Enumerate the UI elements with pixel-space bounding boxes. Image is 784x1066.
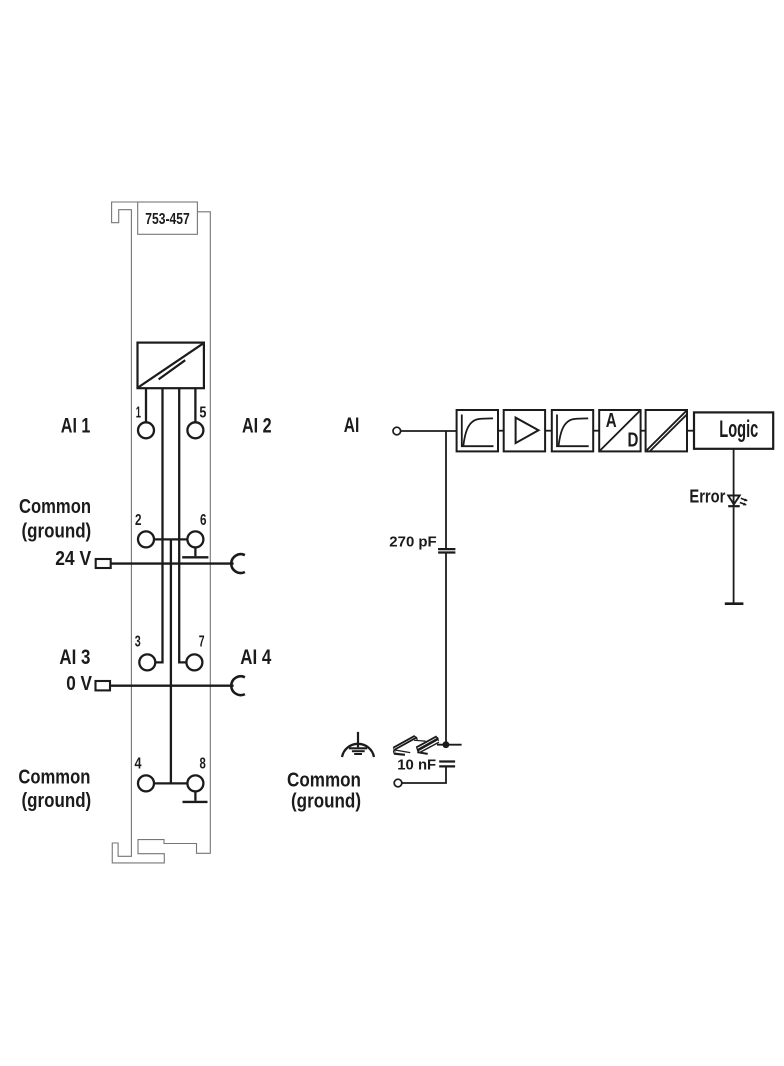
svg-text:(ground): (ground) xyxy=(291,791,361,813)
AI input terminal circle xyxy=(393,427,401,435)
A/D converter block U1 xyxy=(138,343,204,389)
svg-text:24 V: 24 V xyxy=(55,548,92,570)
terminal 3 xyxy=(135,634,156,671)
ground bar below logic xyxy=(725,602,744,605)
LED Error diode xyxy=(728,496,748,507)
svg-text:AI: AI xyxy=(344,413,360,437)
svg-text:AI 2: AI 2 xyxy=(242,413,272,437)
isolation block 5 xyxy=(646,410,687,451)
wire logic down to LED xyxy=(733,449,735,507)
svg-text:AI 1: AI 1 xyxy=(61,413,91,437)
terminal 7 xyxy=(186,634,204,671)
svg-text:5: 5 xyxy=(199,405,206,422)
common ground terminal circle xyxy=(394,779,402,787)
svg-text:2: 2 xyxy=(135,512,142,529)
svg-text:7: 7 xyxy=(199,634,205,651)
wire DIN rail to junction dot xyxy=(437,744,462,746)
label Common (ground) right xyxy=(287,770,361,813)
terminal 2 xyxy=(135,512,154,547)
svg-text:Common: Common xyxy=(19,496,91,518)
label box 753-457 xyxy=(138,202,198,234)
24 V power jumper rail xyxy=(96,554,245,573)
wire converter to terminal 5 xyxy=(194,388,196,423)
capacitor 270 pF xyxy=(438,549,455,552)
wire converter to terminal 3 xyxy=(155,388,162,662)
wire 10 nF to common terminal xyxy=(402,766,446,783)
capacitor 10 nF xyxy=(439,762,455,767)
wire LED to ground bar xyxy=(733,507,735,603)
shield earth symbol xyxy=(342,732,374,757)
svg-text:D: D xyxy=(628,429,639,451)
wire converter to terminal 1 xyxy=(145,388,147,423)
logic block xyxy=(694,412,773,448)
svg-text:1: 1 xyxy=(136,405,141,422)
svg-text:(ground): (ground) xyxy=(22,521,92,543)
svg-text:Common: Common xyxy=(18,766,90,788)
svg-text:4: 4 xyxy=(135,756,142,773)
junction node on AI wire xyxy=(445,431,447,548)
wire AI terminal to filter block xyxy=(401,430,457,432)
amplifier block 2 xyxy=(504,410,545,451)
terminal 1 xyxy=(136,405,154,439)
DIN rail icon xyxy=(393,736,440,755)
label Common (ground) upper xyxy=(19,496,91,543)
svg-text:(ground): (ground) xyxy=(22,790,92,812)
terminal 5 xyxy=(187,405,206,439)
svg-text:10 nF: 10 nF xyxy=(397,758,436,774)
svg-text:AI 4: AI 4 xyxy=(240,645,271,669)
wire block5 to logic xyxy=(687,430,694,432)
svg-text:6: 6 xyxy=(200,512,207,529)
wire terminal 2 to terminal 6 xyxy=(154,538,187,540)
svg-text:8: 8 xyxy=(200,756,207,773)
svg-text:753-457: 753-457 xyxy=(145,211,190,228)
svg-text:AI 3: AI 3 xyxy=(59,645,90,669)
svg-text:0 V: 0 V xyxy=(66,673,92,695)
A/D block 4 xyxy=(599,410,640,451)
svg-text:270 pF: 270 pF xyxy=(389,535,437,551)
wire block4 to block5 xyxy=(641,430,646,432)
module outline 753-457 xyxy=(112,202,211,863)
junction dot xyxy=(443,741,450,748)
wire converter to terminal 7 xyxy=(179,388,186,662)
terminal 8 xyxy=(187,756,206,792)
svg-text:3: 3 xyxy=(135,634,141,651)
label Common (ground) lower xyxy=(18,766,91,812)
0 V power jumper rail xyxy=(96,676,245,695)
svg-text:Error: Error xyxy=(689,485,725,506)
power jumper contact plate terminal 6 xyxy=(182,556,208,558)
power jumper contact plate terminal 8 xyxy=(183,801,208,803)
filter block 3 xyxy=(552,410,593,451)
power jumper contact stem terminal 8 xyxy=(194,791,196,800)
wire block2 to block3 xyxy=(545,430,552,432)
wire block1 to block2 xyxy=(498,430,504,432)
power jumper contact stem terminal 6 xyxy=(194,547,196,556)
wire block3 to block4 xyxy=(593,430,599,432)
wire 270 pF down to junction dot xyxy=(445,553,447,745)
filter block 1 xyxy=(457,410,498,451)
wire common bus down to 4/8 row xyxy=(170,539,172,783)
terminal 6 xyxy=(187,512,206,547)
svg-text:Logic: Logic xyxy=(719,416,758,443)
terminal 4 xyxy=(135,756,155,792)
svg-text:Common: Common xyxy=(287,770,361,792)
wire terminal 4 to terminal 8 xyxy=(154,782,187,784)
svg-text:A: A xyxy=(606,410,617,432)
